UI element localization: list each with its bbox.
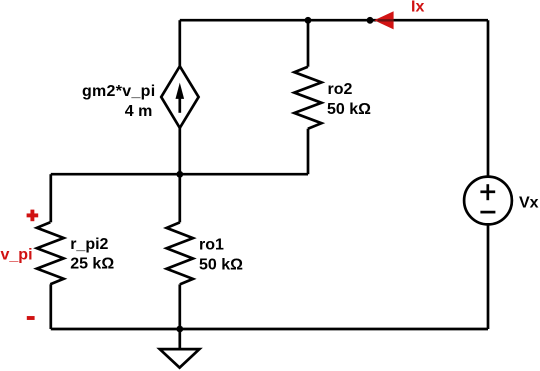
- svg-text:ro2: ro2: [328, 81, 353, 98]
- wire left vertical upper (middle wire to r_pi2): [49, 174, 52, 222]
- wire right vertical lower (Vx bottom to bottom wire): [487, 224, 490, 329]
- wire ro1 bottom stub: [178, 284, 181, 329]
- wire left vertical lower (r_pi2 to bottom wire): [49, 284, 52, 329]
- current source U1 diamond (gm2*v_pi): [161, 66, 198, 128]
- svg-text:ro1: ro1: [199, 236, 224, 253]
- wire current source top stub: [178, 20, 181, 66]
- junction dot top wire at probe: [367, 17, 374, 24]
- svg-text:4 m: 4 m: [125, 103, 153, 120]
- label + (v_pi polarity): [27, 213, 39, 217]
- current probe arrow Ix: [374, 11, 393, 29]
- resistor r_pi2: [37, 222, 64, 284]
- junction dot bottom wire: [176, 326, 183, 333]
- svg-text:r_pi2: r_pi2: [70, 236, 108, 253]
- resistor ro2: [294, 67, 321, 129]
- svg-text:v_pi: v_pi: [1, 247, 33, 264]
- wire top horizontal: [180, 19, 488, 22]
- wire right vertical upper (to Vx top): [487, 20, 490, 177]
- svg-text:25 kΩ: 25 kΩ: [70, 256, 114, 273]
- svg-text:50 kΩ: 50 kΩ: [327, 101, 371, 118]
- wire ro1 top stub: [178, 174, 181, 222]
- svg-text:50 kΩ: 50 kΩ: [199, 256, 243, 273]
- svg-text:gm2*v_pi: gm2*v_pi: [82, 83, 156, 100]
- junction dot top wire at ro2: [305, 17, 312, 24]
- label - (v_pi polarity): [27, 316, 35, 320]
- voltage source Vx: [464, 177, 512, 225]
- wire middle horizontal: [51, 173, 308, 176]
- ground: [160, 329, 200, 368]
- svg-text:Vx: Vx: [519, 194, 539, 211]
- wire ro2 top stub: [307, 20, 310, 66]
- svg-text:Ix: Ix: [411, 0, 424, 15]
- junction dot middle wire: [176, 171, 183, 178]
- resistor ro1: [167, 222, 193, 284]
- wire ro2 bottom stub: [307, 129, 310, 175]
- wire bottom horizontal: [51, 328, 488, 331]
- wire current source bottom stub: [178, 128, 181, 174]
